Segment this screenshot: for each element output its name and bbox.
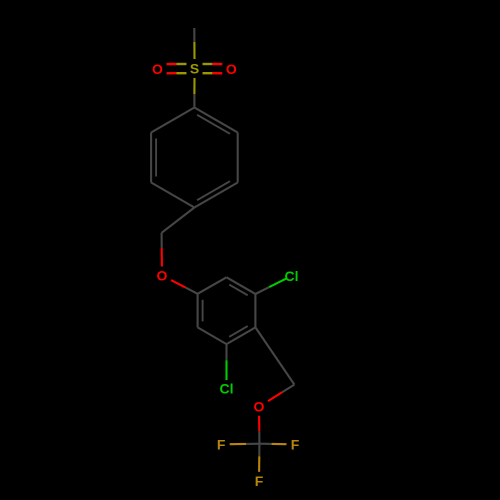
bond CC-O2 [268,385,294,402]
svg-text:F: F [255,473,264,489]
bond R2B-CL2 [225,344,227,380]
bond R1B-R1LL [151,183,194,208]
bond R2T-R2UR [227,277,256,295]
bond R1T-R1UR [194,108,237,134]
bond R1UL-R1T [151,108,194,133]
svg-text:Cl: Cl [220,381,234,397]
svg-text:F: F [217,436,226,452]
svg-text:O: O [254,399,265,415]
bond R2LL-R2UL [198,294,203,328]
bond R1UR-R1LR [237,133,239,183]
bond O2-CF [258,416,260,444]
bond CF-F3 [258,444,260,472]
bond CH3-S [193,28,195,59]
svg-text:S: S [190,61,199,77]
bond R2UR-R2LR [254,294,256,327]
bond CF-F2 [259,443,286,446]
bond R2UL-R2T [198,277,227,294]
bond R1LL-R1UL [151,133,156,183]
bond S-R1T [193,78,195,108]
bond R2LR-CC [255,327,294,384]
bond R2LR-R2B [227,326,256,344]
bond CF-F1 [230,443,260,446]
bond S-OR [203,64,223,73]
bond S-OL [167,64,187,73]
bond CH2-OE [161,233,163,267]
bond R1LR-R1B [194,181,237,207]
svg-text:O: O [152,61,163,77]
bond R2B-R2LL [198,327,227,344]
svg-text:Cl: Cl [285,268,299,284]
bond R2UR-CL1 [255,279,286,294]
svg-text:F: F [291,436,300,452]
bond R1B-CH2 [162,208,195,233]
svg-text:O: O [157,268,168,284]
bond OE-R2UL [171,280,198,294]
svg-text:O: O [226,61,237,77]
